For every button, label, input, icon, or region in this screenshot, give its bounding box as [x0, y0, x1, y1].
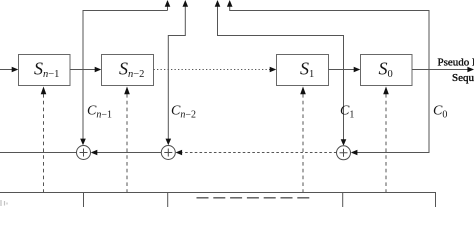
wire S_{n-1} to S_{n-2} [70, 67, 101, 73]
wire feedback-tap T3 top arrow to adder X3 (up-arrow x=217.5, jog y=35.5, vertical x=343.5) [215, 0, 347, 146]
wire feedback-tap T1 top arrow to adder X1 (vertical x=83, horiz y=10.5, up-arrow at x=167.5) [80, 0, 170, 145]
wire S_1 to S_0 [329, 67, 361, 73]
register S_{n-2} [102, 55, 154, 86]
wire input into register S_{n-1} [0, 67, 18, 73]
wire dashed tap from S_{n-1} down to coefficient row [41, 87, 47, 193]
svg-text:Cn−1: Cn−1 [87, 104, 112, 121]
wire dashed tap from S_{n-2} down to coefficient row [124, 87, 130, 193]
svg-text:C1: C1 [340, 104, 354, 121]
adder X3 (XOR) [337, 146, 351, 160]
coefficient register row (bottom, clipped) [0, 193, 436, 208]
adder X1 (XOR) [77, 146, 91, 160]
faint caption remnant bottom-left [1, 200, 7, 206]
svg-text:Sequence: Sequence [452, 72, 474, 84]
wire dashed tap from S_1 down to coefficient row [300, 87, 306, 193]
adder X2 (XOR) [161, 146, 175, 160]
wire dashed tap from S_0 down to coefficient row [383, 87, 389, 193]
elision dashes in coefficient row [197, 197, 310, 199]
svg-text:Pseudo Random: Pseudo Random [438, 57, 474, 69]
wire feedback main F (up-arrow x=229.7, horiz y=10.5 to x=429, down to y=152.5, left into adder X3) [227, 0, 429, 155]
svg-text:Cn−2: Cn−2 [171, 104, 196, 121]
wire dashed adder X3 to adder X2 with arrow [176, 150, 337, 156]
register S_{n-1} [19, 55, 71, 86]
label output Pseudo Random Sequence (clipped at right edge) [438, 57, 474, 85]
wire feedback-tap T2 top arrow to adder X2 (up-arrow x=185.3, jog y=35.5, vertical x=168.3) [166, 0, 189, 145]
svg-text:C0: C0 [433, 104, 447, 121]
wire output to Pseudo Random Sequence [412, 67, 474, 73]
register S_1 [277, 55, 329, 86]
wire adder X2 to adder X1 with arrow [91, 150, 162, 156]
wire adder chain solid left segment (to left edge) [0, 152, 77, 154]
wire dotted elision S_{n-2} to S_1 [154, 67, 277, 73]
register S_0 [361, 55, 413, 86]
